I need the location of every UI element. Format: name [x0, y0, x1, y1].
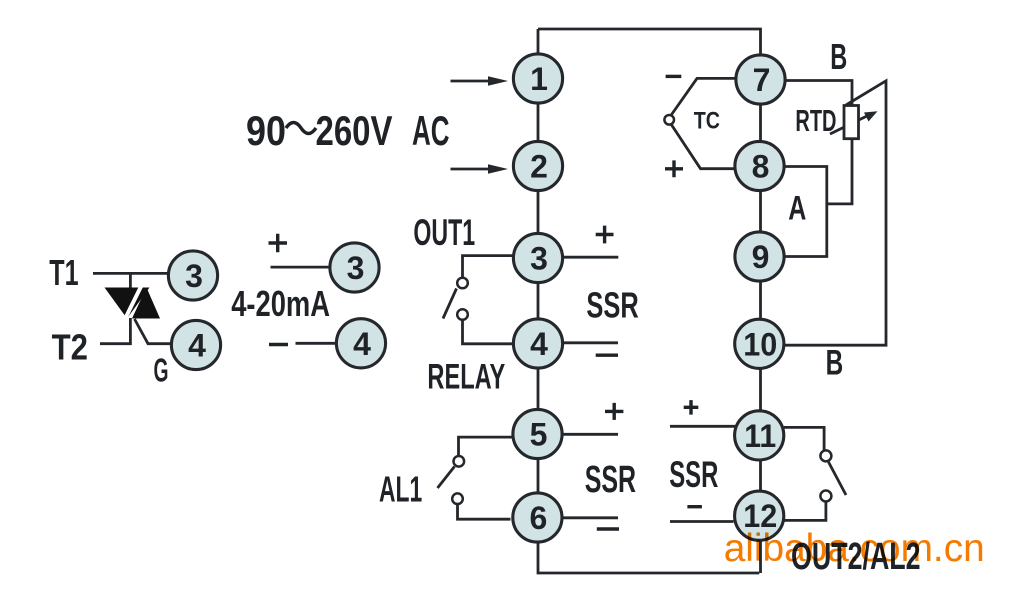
- svg-text:5: 5: [530, 417, 548, 453]
- svg-text:B: B: [826, 344, 844, 383]
- svg-text:TC: TC: [694, 107, 720, 134]
- svg-text:AL1: AL1: [379, 469, 422, 510]
- svg-text:G: G: [154, 352, 169, 389]
- svg-text:9: 9: [752, 239, 770, 275]
- svg-text:SSR: SSR: [669, 454, 718, 495]
- svg-text:RTD: RTD: [795, 103, 836, 138]
- svg-text:1: 1: [530, 61, 548, 97]
- svg-text:4-20mA: 4-20mA: [231, 283, 330, 324]
- svg-text:A: A: [788, 190, 806, 228]
- svg-text:4: 4: [353, 326, 371, 362]
- svg-text:3: 3: [347, 250, 365, 286]
- svg-text:AC: AC: [412, 107, 450, 154]
- svg-text:10: 10: [743, 326, 777, 362]
- svg-text:RELAY: RELAY: [427, 357, 505, 396]
- svg-text:alibaba.com.cn: alibaba.com.cn: [724, 527, 985, 570]
- svg-text:T2: T2: [52, 327, 88, 368]
- svg-text:7: 7: [753, 62, 771, 98]
- svg-text:8: 8: [752, 149, 770, 185]
- svg-text:90: 90: [246, 107, 286, 154]
- svg-text:B: B: [830, 36, 847, 77]
- svg-text:3: 3: [185, 258, 203, 294]
- svg-text:OUT1: OUT1: [413, 212, 475, 253]
- svg-text:260V: 260V: [316, 107, 393, 154]
- svg-text:T1: T1: [49, 252, 78, 293]
- svg-text:11: 11: [744, 418, 776, 454]
- svg-text:SSR: SSR: [586, 285, 638, 326]
- svg-text:6: 6: [530, 500, 548, 536]
- svg-text:3: 3: [530, 241, 548, 277]
- svg-text:SSR: SSR: [585, 459, 636, 501]
- svg-text:4: 4: [530, 326, 548, 362]
- svg-text:2: 2: [530, 149, 548, 185]
- svg-text:4: 4: [188, 328, 206, 364]
